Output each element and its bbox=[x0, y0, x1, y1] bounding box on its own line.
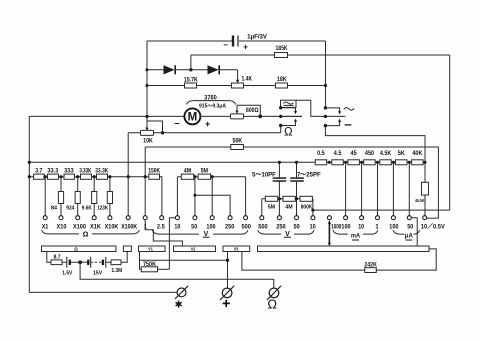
node battery mid bbox=[78, 260, 82, 264]
wire plus bus y260 bbox=[140, 259, 228, 261]
wire battery mid to ohm terminal bbox=[80, 262, 274, 288]
svg-text:50: 50 bbox=[191, 224, 198, 231]
svg-text:84: 84 bbox=[51, 206, 58, 212]
node 15.7K row left bbox=[145, 84, 148, 87]
svg-text:Ω: Ω bbox=[284, 126, 293, 138]
svg-text:50: 50 bbox=[407, 224, 414, 231]
svg-text:10: 10 bbox=[358, 224, 364, 231]
brace ohm bbox=[42, 230, 140, 238]
svg-text:800K: 800K bbox=[301, 205, 313, 211]
svg-text:X100: X100 bbox=[73, 224, 86, 231]
terminals row bbox=[43, 216, 427, 220]
svg-text:X10: X10 bbox=[57, 224, 67, 231]
svg-text:4M: 4M bbox=[184, 168, 191, 175]
svg-text:5M: 5M bbox=[268, 205, 276, 211]
resistor 185K bbox=[275, 45, 288, 58]
terminal star bbox=[175, 286, 188, 308]
wire V3 bar to 242K bbox=[242, 252, 365, 271]
node between diodes bbox=[189, 68, 192, 71]
svg-text:10: 10 bbox=[310, 224, 316, 231]
svg-text:600Ω: 600Ω bbox=[246, 108, 259, 114]
resistor 150K bbox=[148, 168, 160, 180]
svg-text:15.7K: 15.7K bbox=[184, 76, 198, 83]
resistor 46.5K bbox=[415, 162, 428, 215]
wire switch box top to right switch wiper bbox=[296, 100, 325, 116]
wire terminal 1 drop bbox=[144, 177, 146, 216]
resistor 5M ac bbox=[265, 196, 277, 210]
svg-text:3.33K: 3.33K bbox=[79, 168, 91, 175]
node plus bus bbox=[226, 259, 229, 262]
resistor 1.3M bbox=[111, 260, 122, 274]
wire V1 bar drop bbox=[140, 252, 142, 270]
svg-text:924: 924 bbox=[66, 206, 75, 212]
svg-text:33.3K: 33.3K bbox=[95, 168, 108, 175]
svg-text:5～10PF: 5～10PF bbox=[252, 172, 276, 178]
svg-text:50K: 50K bbox=[233, 138, 243, 145]
svg-text:1.3M: 1.3M bbox=[111, 268, 122, 274]
node 10K pot output bbox=[161, 131, 164, 134]
potentiometer 600ohm bbox=[231, 105, 261, 119]
node trimmer taps bbox=[278, 161, 298, 164]
svg-text:+: + bbox=[205, 119, 210, 129]
svg-text:1μF/3V: 1μF/3V bbox=[247, 35, 267, 41]
trimmer capacitor 7-25PF bbox=[290, 162, 321, 199]
svg-text:100: 100 bbox=[389, 224, 399, 231]
svg-text:5M: 5M bbox=[201, 168, 208, 175]
brace uA bbox=[393, 230, 420, 240]
resistor 3.7 bbox=[34, 168, 45, 180]
wire left vertical from top row to meter line bbox=[146, 41, 148, 116]
svg-text:2.5: 2.5 bbox=[157, 224, 165, 231]
resistor 123K bbox=[97, 177, 112, 216]
wire 15.7K row bbox=[147, 85, 326, 87]
switch wafer V1 bar bbox=[139, 246, 166, 252]
resistor 333 bbox=[64, 168, 75, 180]
wire X1 drop bbox=[44, 177, 46, 216]
node meter line / 10K pot bbox=[145, 115, 148, 118]
svg-text:500: 500 bbox=[258, 224, 268, 231]
wire DCV line 4M 5M bbox=[177, 177, 245, 216]
svg-text:1: 1 bbox=[375, 224, 379, 231]
svg-text:1.5V: 1.5V bbox=[62, 271, 72, 277]
svg-text:X1: X1 bbox=[42, 224, 49, 231]
wire terminal1 to V2 bar bbox=[145, 220, 182, 246]
svg-text:250: 250 bbox=[225, 224, 235, 231]
resistor 45 bbox=[348, 150, 360, 165]
svg-text:750K: 750K bbox=[143, 262, 157, 268]
resistor 5M dc bbox=[198, 168, 211, 180]
svg-text:mA: mA bbox=[351, 232, 360, 239]
svg-text:3.7: 3.7 bbox=[35, 168, 43, 175]
switch wafer ohm bar bbox=[42, 246, 116, 252]
resistor 18K bbox=[276, 76, 288, 88]
battery 1.5V bbox=[62, 257, 72, 277]
svg-text:1.4K: 1.4K bbox=[242, 76, 253, 83]
node 18K row at switch bbox=[324, 84, 327, 87]
resistor 750K bbox=[141, 262, 157, 272]
svg-text:−: − bbox=[174, 119, 179, 129]
node mA chain junctions bbox=[328, 161, 427, 164]
svg-text:46.5K: 46.5K bbox=[415, 198, 425, 203]
wire left vertical bbox=[28, 116, 30, 292]
wire to 1.3M bbox=[106, 261, 111, 263]
svg-text:0.5: 0.5 bbox=[317, 150, 325, 157]
resistor 1.4K bbox=[232, 76, 253, 89]
svg-text:150K: 150K bbox=[148, 168, 160, 175]
svg-text:4M: 4M bbox=[285, 205, 293, 211]
svg-text:5K: 5K bbox=[398, 150, 406, 157]
terminal plus bbox=[220, 286, 234, 307]
svg-text:7～25PF: 7～25PF bbox=[297, 172, 321, 178]
label AC tilde bbox=[344, 108, 354, 111]
node 600ohm pot output bbox=[258, 115, 262, 119]
svg-text:18K: 18K bbox=[277, 76, 287, 83]
wire right vertical 185K to AC bus bbox=[449, 55, 451, 210]
node ohm divider junctions bbox=[44, 175, 147, 178]
resistor 33.3K bbox=[95, 168, 108, 180]
switch wafer small box bbox=[123, 246, 131, 252]
wire 185K row to diode junction bbox=[190, 55, 192, 70]
wire terminal10 to 750K bbox=[169, 218, 175, 270]
svg-text:10: 10 bbox=[174, 224, 180, 231]
wire S1b bottom to 40K junction bbox=[325, 126, 425, 163]
wire 10/0.5V stub bbox=[427, 217, 439, 219]
svg-text:V3: V3 bbox=[234, 246, 239, 251]
svg-text:915～9.3μA: 915～9.3μA bbox=[199, 103, 226, 109]
svg-text:V1: V1 bbox=[148, 246, 153, 251]
switch S1a box AC/DC bbox=[281, 100, 297, 107]
resistor 5K bbox=[396, 150, 408, 165]
brace V dc bbox=[152, 230, 248, 238]
svg-text:Ω: Ω bbox=[267, 297, 277, 312]
node AC bus left bbox=[28, 161, 31, 179]
resistor 4.5K bbox=[380, 150, 392, 165]
switch wafer mA long bar bbox=[258, 246, 430, 252]
svg-text:Ω: Ω bbox=[83, 232, 89, 239]
svg-text:4.5: 4.5 bbox=[334, 150, 342, 157]
svg-text:45: 45 bbox=[351, 150, 358, 157]
wire 1.3M to small box bbox=[121, 252, 127, 263]
wire DCV 250 tap bbox=[195, 195, 230, 216]
svg-text:10／0.5V: 10／0.5V bbox=[421, 223, 446, 231]
terminal ohm bbox=[267, 286, 281, 312]
svg-text:250: 250 bbox=[276, 224, 286, 231]
arrow onto 1.4K bbox=[236, 80, 239, 83]
svg-text:3760: 3760 bbox=[204, 95, 217, 102]
svg-text:X1K: X1K bbox=[90, 224, 101, 231]
resistor 0.5 bbox=[315, 150, 327, 165]
svg-text:15V: 15V bbox=[93, 271, 102, 277]
wire meter line bbox=[29, 115, 302, 117]
node DCV divider junctions bbox=[193, 175, 214, 197]
potentiometer 10K bbox=[141, 116, 163, 144]
wire 50K row bbox=[145, 147, 438, 218]
svg-text:185K: 185K bbox=[276, 45, 288, 52]
svg-text:500: 500 bbox=[242, 224, 252, 231]
wire 10K pot row bbox=[128, 133, 281, 177]
svg-text:333: 333 bbox=[64, 168, 74, 175]
resistor 8.7 bbox=[51, 255, 62, 265]
wire ohm bar to battery bbox=[47, 252, 51, 263]
svg-text:8.7: 8.7 bbox=[54, 255, 61, 261]
brace mA bbox=[333, 230, 378, 240]
svg-text:M: M bbox=[188, 112, 198, 124]
wire to star terminal bbox=[29, 291, 177, 293]
wire ACV feed 800K row bbox=[262, 199, 313, 216]
svg-text:33.3: 33.3 bbox=[47, 168, 58, 175]
svg-text:242K: 242K bbox=[364, 263, 377, 269]
wire 242K to long bar bbox=[376, 249, 436, 270]
battery 15V bbox=[88, 257, 106, 277]
wire AC bus y162 bbox=[29, 161, 315, 163]
wire ohm series line bbox=[29, 177, 162, 216]
meter M bbox=[174, 108, 210, 128]
resistor 33.3 bbox=[47, 168, 58, 180]
resistor 450 bbox=[364, 150, 376, 165]
diode D1 bbox=[164, 65, 176, 74]
switch wafer V2 bar bbox=[174, 246, 216, 252]
wire AC feed bus y210 bbox=[313, 209, 450, 211]
terminal labels bbox=[42, 223, 446, 231]
wire top row right bbox=[239, 40, 326, 42]
wire uA50 to main bar bbox=[411, 218, 417, 246]
wire top row left bbox=[147, 40, 232, 42]
resistor 84 bbox=[51, 177, 64, 216]
svg-text:Ω: Ω bbox=[74, 247, 78, 252]
svg-text:10K: 10K bbox=[143, 138, 153, 145]
node S1b contacts bbox=[324, 106, 327, 127]
resistor 50K bbox=[231, 138, 244, 150]
resistor 242K bbox=[364, 263, 377, 273]
switch wafer V3 bar bbox=[223, 246, 250, 252]
resistor 4.5 bbox=[332, 150, 344, 165]
diode D2 bbox=[208, 65, 220, 74]
wire right vertical from top row to AC/DC switch bbox=[325, 41, 327, 108]
resistor 4M dc bbox=[181, 168, 194, 180]
resistor 924 bbox=[66, 177, 80, 216]
trimmer capacitor 5-10PF bbox=[252, 162, 286, 199]
resistor 15.7K bbox=[184, 76, 198, 88]
node S1a contacts bbox=[279, 106, 282, 127]
resistor 40K bbox=[412, 150, 424, 165]
svg-text:123K: 123K bbox=[97, 206, 108, 212]
wire mA taps to terminals bbox=[346, 162, 410, 215]
svg-text:4.5K: 4.5K bbox=[380, 150, 392, 157]
svg-text:100: 100 bbox=[341, 224, 351, 231]
label DC minus bbox=[345, 124, 352, 126]
wire to battery 1.5V bbox=[62, 261, 66, 263]
svg-text:+: + bbox=[243, 43, 248, 52]
wire X100K drop bbox=[127, 177, 129, 216]
wire V3 bar to plus terminal bbox=[227, 252, 229, 289]
wire battery junction bbox=[71, 261, 88, 263]
resistor 9.6K bbox=[82, 177, 97, 216]
svg-text:9.6K: 9.6K bbox=[82, 206, 92, 212]
capacitor C1 1uF/3V bbox=[223, 35, 267, 52]
wire mA1000 heavy link bbox=[328, 220, 331, 246]
wire 185K row bbox=[191, 54, 450, 56]
switch S1a contacts bbox=[281, 108, 302, 133]
svg-text:X100K: X100K bbox=[121, 224, 137, 231]
wire mA chain row bbox=[327, 161, 425, 163]
resistor 3.33K bbox=[79, 168, 91, 180]
svg-text:1000: 1000 bbox=[331, 224, 342, 231]
svg-text:40K: 40K bbox=[412, 150, 422, 157]
svg-text:X10K: X10K bbox=[105, 224, 119, 231]
svg-text:−: − bbox=[223, 41, 228, 50]
resistor 4M ac bbox=[283, 196, 295, 210]
node ACV divider junctions bbox=[278, 197, 315, 212]
wire diode row bbox=[147, 70, 238, 80]
switch S1b contacts bbox=[325, 108, 345, 126]
svg-text:50: 50 bbox=[294, 224, 301, 231]
svg-text:450: 450 bbox=[365, 150, 375, 157]
svg-text:μA: μA bbox=[405, 232, 413, 239]
meter brace 3760 bbox=[186, 95, 236, 110]
svg-text:V2: V2 bbox=[191, 246, 196, 251]
wire 750K to terminal10 riser bbox=[158, 268, 170, 270]
svg-text:100: 100 bbox=[206, 224, 216, 231]
node diode row left bbox=[145, 68, 148, 71]
brace V ac bbox=[258, 230, 314, 238]
resistor 800K bbox=[300, 196, 312, 210]
